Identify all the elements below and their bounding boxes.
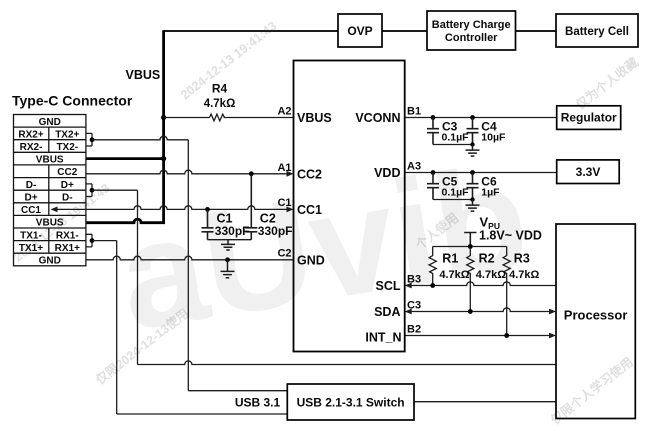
- node: junction CC1 / C1 cap: [205, 207, 210, 212]
- node: TX1 bracket junction: [90, 238, 95, 243]
- node: junction VDD/C5: [431, 170, 436, 175]
- capacitor C4 10uF: [467, 118, 479, 145]
- wire: TX1 net to USB switch: [117, 413, 288, 415]
- svg-text:SCL: SCL: [376, 279, 401, 293]
- wire: pull-up rail R1-R3: [433, 246, 507, 248]
- resistor R1 4.7k: [429, 247, 436, 286]
- wire: D net vertical down: [137, 190, 139, 364]
- svg-text:VBUS: VBUS: [297, 111, 332, 125]
- svg-text:Controller: Controller: [445, 32, 498, 44]
- svg-text:10µF: 10µF: [481, 132, 506, 144]
- svg-text:1.8V~ VDD: 1.8V~ VDD: [479, 229, 542, 243]
- node: junction GND / ground symbol: [225, 257, 230, 262]
- arrow: CC1 into connector: [51, 207, 58, 213]
- block: Battery Charge Controller: [427, 11, 516, 50]
- svg-text:C1: C1: [277, 197, 291, 209]
- svg-text:Battery Charge: Battery Charge: [432, 19, 511, 31]
- svg-text:USB 3.1: USB 3.1: [235, 395, 281, 409]
- resistor R3 4.7k: [503, 247, 510, 336]
- block: Processor: [556, 224, 635, 419]
- wire: CC2 net from connector to IC pin A1 (hops over trunk and TX2): [86, 170, 290, 174]
- node: junction C4/ground: [470, 142, 474, 146]
- arrow: SCL into IC: [405, 283, 412, 289]
- label: IC pin numbers right: [407, 106, 421, 336]
- svg-text:1µF: 1µF: [481, 187, 500, 199]
- svg-text:B1: B1: [407, 106, 421, 118]
- node: junction VCONN/C3: [431, 115, 436, 120]
- svg-text:TX2-: TX2-: [56, 142, 78, 153]
- svg-text:4.7kΩ: 4.7kΩ: [439, 269, 469, 281]
- wire: Battery Charge Controller to Battery Cell: [516, 30, 557, 32]
- svg-text:TX1-: TX1-: [20, 230, 42, 241]
- wire: C5/C6 bottom rail: [433, 199, 473, 201]
- svg-text:0.1µF: 0.1µF: [442, 187, 470, 199]
- svg-text:R2: R2: [479, 252, 495, 266]
- node: junction VPU/rail: [468, 244, 473, 249]
- svg-text:VDD: VDD: [374, 166, 400, 180]
- svg-text:Type-C Connector: Type-C Connector: [12, 93, 133, 109]
- label: connector pin names: [18, 117, 80, 267]
- svg-text:D+: D+: [61, 180, 74, 191]
- block: Battery Cell: [556, 14, 638, 47]
- wire: SCL net IC to Processor (hops over R2,R3): [405, 282, 556, 286]
- svg-text:D+: D+: [24, 193, 37, 204]
- svg-text:A2: A2: [277, 106, 291, 118]
- wire: R4 net from trunk to IC pin A2: [164, 117, 294, 119]
- block: USB 2.1-3.1 Switch: [287, 384, 414, 420]
- wire: TX1 pair stubs and bracket: [86, 234, 92, 247]
- svg-text:D-: D-: [26, 180, 37, 191]
- node: junction SDA/R2: [468, 309, 473, 314]
- svg-text:330pF: 330pF: [215, 224, 250, 238]
- node: junction SCL/R1: [430, 283, 435, 288]
- wire: VDD net to 3.3V: [405, 172, 557, 174]
- block: Regulator: [557, 106, 621, 130]
- svg-text:GND: GND: [39, 117, 61, 128]
- wire: TX1 net horizontal: [92, 240, 117, 242]
- wire: INT_N net IC to Processor: [405, 335, 553, 337]
- svg-text:0.1µF: 0.1µF: [442, 132, 470, 144]
- svg-text:VBUS: VBUS: [36, 155, 64, 166]
- svg-text:D-: D-: [62, 193, 73, 204]
- ground for C5/C6: [466, 200, 480, 212]
- svg-text:4.7kΩ: 4.7kΩ: [204, 98, 236, 110]
- svg-text:C3: C3: [407, 300, 421, 312]
- wire: TX2 pair stubs and bracket: [86, 133, 92, 146]
- svg-text:C2: C2: [277, 248, 291, 260]
- capacitor C3 0.1uF: [427, 118, 439, 145]
- node: TX2 bracket junction: [90, 137, 95, 142]
- wire: VCONN net to Regulator: [405, 117, 557, 119]
- node: junction C6/ground: [470, 197, 474, 201]
- ground for C1/C2: [221, 240, 235, 250]
- block: Type-C connector table: [14, 115, 86, 266]
- svg-text:4.7kΩ: 4.7kΩ: [509, 269, 539, 281]
- svg-text:CC1: CC1: [21, 205, 41, 216]
- wire: TX2 net to USB switch: [188, 390, 287, 392]
- wire: OVP to Battery Charge Controller: [382, 30, 427, 32]
- wire: C3/C4 bottom rail: [433, 144, 473, 146]
- node: junction INT_N/R3: [504, 333, 509, 338]
- arrow: INT_N into Processor: [549, 333, 556, 339]
- block: 3.3V: [557, 160, 620, 184]
- watermark large pale logo: [109, 132, 539, 362]
- wire: TX2 net vertical down: [187, 140, 189, 391]
- arrow: CC1 into IC: [287, 207, 294, 213]
- svg-text:R1: R1: [442, 252, 458, 266]
- svg-text:RX1+: RX1+: [55, 243, 80, 254]
- svg-text:CC2: CC2: [297, 167, 322, 181]
- svg-text:A3: A3: [407, 161, 421, 173]
- svg-text:Battery Cell: Battery Cell: [565, 26, 629, 38]
- node: junction trunk/row4: [161, 156, 166, 161]
- arrow: SDA into Processor: [549, 309, 556, 315]
- svg-text:330pF: 330pF: [258, 224, 293, 238]
- svg-text:USB 2.1-3.1 Switch: USB 2.1-3.1 Switch: [297, 395, 405, 409]
- wire: GND net connector to IC pin C2 (hops over TX1, D, TX2 verticals): [86, 256, 294, 260]
- node: junction trunk/R4: [161, 115, 166, 120]
- node: junction VCONN/C4: [470, 115, 475, 120]
- label: IC pin names: [297, 111, 402, 345]
- svg-text:TX1+: TX1+: [19, 243, 43, 254]
- svg-text:RX2-: RX2-: [20, 142, 43, 153]
- svg-text:GND: GND: [39, 256, 61, 267]
- svg-text:B3: B3: [407, 274, 421, 286]
- capacitor C6 1uF: [467, 173, 479, 200]
- label: IC pin numbers left: [277, 106, 291, 260]
- wire: TX2 net horizontal (hop over VBUS trunk): [92, 136, 188, 140]
- wire: CC1 net connector to IC pin C1 (hops over D, trunk, TX2, C2-cap verticals): [86, 206, 290, 210]
- wire: D+/D- pair stubs and bracket: [86, 184, 92, 197]
- capacitor C2 330pF: [245, 174, 257, 240]
- svg-text:4.7kΩ: 4.7kΩ: [476, 269, 506, 281]
- svg-text:Processor: Processor: [564, 308, 628, 323]
- svg-text:OVP: OVP: [347, 24, 372, 38]
- arrow: SDA into IC: [405, 309, 412, 315]
- wire: C1/C2 bottom rail: [208, 239, 252, 241]
- op-amp/IC U1 main controller block: [294, 61, 405, 352]
- svg-text:3.3V: 3.3V: [576, 165, 601, 179]
- resistor R4: [210, 114, 225, 121]
- wire: D net horizontal to vertical: [92, 189, 138, 191]
- ground for GND pin: [221, 260, 235, 278]
- svg-text:GND: GND: [297, 253, 325, 267]
- svg-text:VBUS: VBUS: [36, 218, 64, 229]
- svg-text:R3: R3: [514, 252, 530, 266]
- svg-text:VBUS: VBUS: [126, 68, 161, 82]
- svg-text:SDA: SDA: [374, 305, 400, 319]
- svg-text:RX1-: RX1-: [56, 230, 79, 241]
- wire: VBUS trunk vertical: [162, 30, 165, 223]
- capacitor C1 330pF: [202, 209, 214, 239]
- wire: D net to Processor (hop over TX2 vertical): [138, 361, 557, 365]
- node: junction VDD/C6: [470, 170, 475, 175]
- node: junction CC2 / C2 cap: [249, 171, 254, 176]
- svg-text:TX2+: TX2+: [55, 129, 79, 140]
- wire: CC1 net inside connector with arrow: [54, 208, 86, 210]
- node: D bracket junction: [90, 188, 95, 193]
- wire: SDA net IC to Processor (hop over R3): [405, 308, 553, 312]
- block: OVP: [338, 14, 382, 47]
- svg-text:R4: R4: [212, 82, 228, 96]
- wire: VBUS trunk to OVP (top rail): [164, 30, 338, 32]
- svg-text:B2: B2: [407, 324, 421, 336]
- svg-text:VCONN: VCONN: [355, 111, 400, 125]
- svg-text:CC1: CC1: [297, 203, 322, 217]
- svg-text:RX2+: RX2+: [18, 129, 43, 140]
- wire: TX1 net vertical down: [116, 241, 118, 414]
- svg-text:INT_N: INT_N: [365, 331, 401, 345]
- power symbol VPU 1.8V: [464, 233, 476, 247]
- capacitor C5 0.1uF: [427, 173, 439, 200]
- svg-text:A1: A1: [277, 162, 291, 174]
- svg-text:CC2: CC2: [57, 167, 77, 178]
- resistor R2 4.7k: [467, 247, 474, 312]
- wire: USB switch to Processor: [414, 401, 556, 403]
- wire: VBUS row4 to trunk (thick): [86, 157, 166, 160]
- arrow: CC2 into IC: [287, 171, 294, 177]
- svg-text:Regulator: Regulator: [561, 111, 617, 125]
- wire: VBUS row9 to trunk (thick, hop over D line): [86, 219, 166, 223]
- ground for C3/C4: [466, 145, 480, 157]
